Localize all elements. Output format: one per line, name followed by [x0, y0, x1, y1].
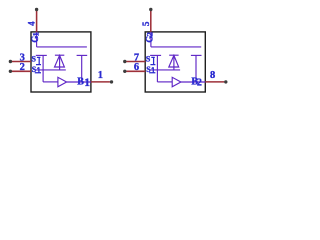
diode cathode bar — [55, 54, 64, 56]
svg-text:B: B — [77, 76, 84, 87]
svg-text:5: 5 — [141, 21, 151, 26]
diode cathode bar — [169, 54, 178, 56]
svg-text:8: 8 — [210, 70, 215, 81]
entry line to arrow — [157, 81, 172, 83]
pin 4 wire (top, left unit) — [36, 11, 38, 32]
plate bar (left tee) — [150, 54, 161, 56]
pin 7 wire (right unit) — [126, 61, 145, 63]
diode triangle (apex up) — [55, 55, 65, 67]
svg-text:1: 1 — [84, 77, 90, 89]
wire: pin5 entry vertical — [150, 32, 152, 47]
pin 4 unconnected dot — [35, 8, 38, 11]
tee stem down to output — [195, 55, 197, 82]
component body box (right) — [145, 32, 205, 92]
pin 1 unconnected dot — [110, 80, 113, 83]
wire: source line — [36, 69, 66, 71]
tee stem down to output — [81, 55, 83, 82]
svg-text:2: 2 — [20, 62, 25, 73]
plate bar (left tee) — [36, 54, 47, 56]
left tee stem — [42, 55, 44, 82]
svg-text:6: 6 — [134, 62, 139, 73]
arrow triangle — [58, 77, 67, 87]
pin 3 wire (left unit) — [12, 61, 31, 63]
arrow triangle — [172, 77, 181, 87]
pin name G2 (rotated, top) — [144, 32, 154, 42]
wire: gate rail — [151, 46, 201, 48]
wire: gate rail — [37, 46, 87, 48]
pin 8 wire (right side, right unit) — [205, 81, 224, 83]
pin 5 unconnected dot — [149, 8, 152, 11]
svg-text:1: 1 — [30, 32, 40, 36]
output line to pin8 — [181, 81, 205, 83]
svg-text:1: 1 — [98, 70, 103, 81]
diode stem — [173, 55, 175, 70]
pin 5 wire (top, right unit) — [150, 11, 152, 32]
wire: source line — [150, 69, 180, 71]
entry line to arrow — [43, 81, 58, 83]
output line to pin1 — [67, 81, 91, 83]
pin 1 wire (right side, left unit) — [91, 81, 110, 83]
internal graphics (right unit) — [150, 32, 205, 87]
pin 6 wire (right unit) — [126, 70, 145, 72]
svg-text:2: 2 — [145, 32, 155, 36]
pin 2 unconnected dot — [9, 70, 12, 73]
pin 8 unconnected dot — [224, 80, 227, 83]
svg-text:S: S — [146, 55, 151, 64]
pin name G1 (rotated, top) — [30, 32, 40, 42]
svg-text:S: S — [32, 55, 37, 64]
component body box (left) — [31, 32, 91, 92]
plate bar (right tee) — [77, 54, 88, 56]
pin 2 wire (left unit) — [12, 70, 31, 72]
wire: pin4 entry vertical — [36, 32, 38, 47]
diode stem — [59, 55, 61, 70]
internal graphics (left unit) — [36, 32, 91, 87]
pin 3 unconnected dot — [9, 60, 12, 63]
plate bar (right tee) — [191, 54, 202, 56]
svg-text:4: 4 — [27, 21, 37, 26]
svg-text:2: 2 — [197, 78, 202, 89]
pin 7 unconnected dot — [123, 60, 126, 63]
left tee stem — [156, 55, 158, 82]
diode triangle (apex up) — [169, 55, 179, 67]
pin 6 unconnected dot — [123, 70, 126, 73]
